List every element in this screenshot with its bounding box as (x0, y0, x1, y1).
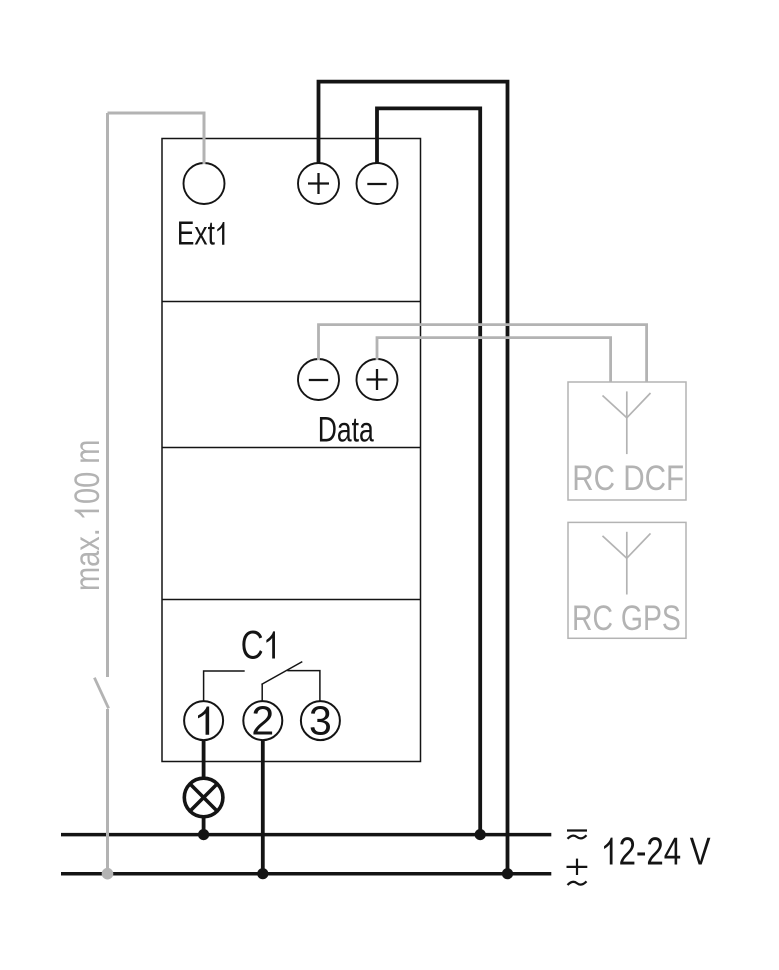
svg-text:2-24 V: 2-24 V (619, 830, 711, 873)
device box U1 (162, 139, 421, 762)
junction: lamp on upper bus (198, 829, 209, 840)
relay common stub (terminal 2) (261, 685, 263, 702)
relay blade (261, 662, 302, 685)
bus line upper (-/~) (61, 833, 551, 837)
svg-text:RC GPS: RC GPS (572, 598, 681, 638)
lamp E1 (184, 778, 223, 817)
label Ext1 (177, 216, 224, 252)
wire: + supply wire from terminal + up over right down to lower bus (319, 82, 508, 874)
junction gray on lower bus (102, 868, 114, 880)
svg-text:max.: max. (67, 520, 106, 591)
wire gray: Data - to RC antenna box (319, 325, 647, 382)
terminal - (top) (357, 163, 398, 204)
terminal Data - (298, 359, 339, 400)
svg-text:00 m: 00 m (67, 440, 106, 504)
junction: - wire on upper bus (475, 829, 486, 840)
svg-text:Data: Data (318, 410, 375, 449)
bus line lower (+/~) (61, 872, 551, 876)
terminal 1 (184, 701, 223, 740)
wire: lamp to upper bus (202, 817, 206, 835)
junction: terminal 2 wire on lower bus (257, 868, 268, 879)
relay contact C1: fixed contact bar left (terminal 1) (204, 671, 245, 702)
label 12-24 V (604, 830, 711, 873)
svg-text:2: 2 (251, 698, 274, 744)
terminal 2 (243, 701, 282, 740)
symbol -/~ at upper bus (567, 829, 587, 831)
terminal Ext1 (184, 163, 225, 204)
terminal + (top) (298, 163, 339, 204)
junction: + wire on lower bus (502, 868, 513, 879)
switch S1 blade (gray) (94, 678, 108, 709)
wire gray: below switch to lower bus (106, 709, 109, 874)
wire gray: Data + to RC antenna box (377, 338, 611, 382)
svg-text:C: C (241, 623, 264, 667)
wire: - supply wire from terminal - up over right down to upper bus (377, 108, 480, 834)
divider 3 (162, 599, 421, 601)
terminal 3 (301, 701, 340, 740)
svg-text:3: 3 (309, 698, 332, 744)
divider 1 (162, 301, 421, 303)
wire gray: left vertical run (max. 100 m) (106, 113, 109, 677)
terminal Data + (357, 359, 398, 400)
pin number 1 (198, 706, 209, 734)
svg-text:RC DCF: RC DCF (572, 457, 684, 497)
symbol +/~ at lower bus (567, 866, 588, 868)
wire: terminal 2 to lower bus (261, 740, 265, 874)
wire: terminal 1 to lamp (202, 740, 206, 779)
RC DCF receiver box (568, 382, 686, 500)
divider 2 (162, 447, 421, 449)
relay fixed contact bar right (terminal 3) (287, 671, 320, 702)
svg-text:Ext: Ext (177, 216, 216, 252)
RC GPS receiver box (568, 522, 686, 638)
RC DCF antenna symbol (626, 391, 628, 454)
label max. 100 m (rotated) (67, 440, 106, 591)
label C1 (241, 623, 275, 667)
RC GPS antenna symbol (626, 532, 628, 595)
wire gray: external input to Ext1 (horizontal + drop) (108, 113, 205, 164)
